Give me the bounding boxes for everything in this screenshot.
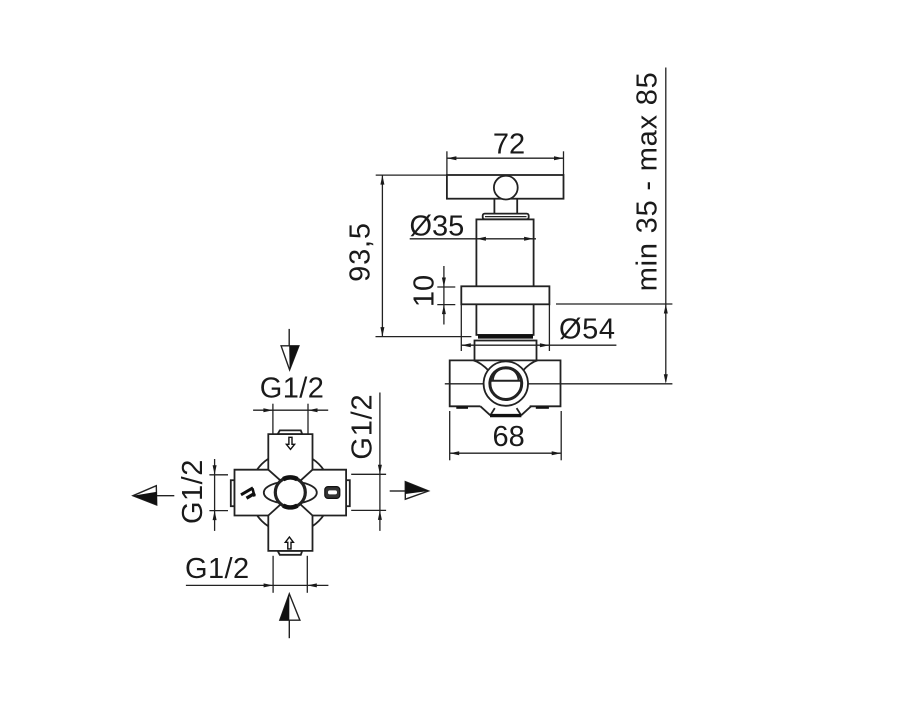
handle bar: [447, 175, 564, 199]
bottom edge shadow ticks: [456, 406, 468, 408]
dimension min35-max85 vertical line: [665, 68, 667, 382]
dimension Ø54 extension lines: [461, 300, 549, 351]
big circle of valve (front): [250, 452, 331, 533]
inlet flow line top: [288, 329, 290, 346]
dimension Ø54 line with arrows: [461, 344, 616, 346]
svg-text:min 35 - max 85: min 35 - max 85: [632, 71, 664, 291]
thread shadow thick line at cartridge bottom: [478, 335, 533, 339]
handle stem: [494, 199, 517, 215]
escutcheon flange Ø54: [461, 286, 549, 304]
dimension 93,5 line with arrows: [381, 175, 383, 337]
top arm glyph (outline arrow down): [286, 437, 294, 449]
dimension G1/2 left line with outside arrows: [214, 459, 216, 531]
outlet flow line bottom: [288, 620, 290, 638]
right end cap: [346, 480, 350, 506]
left flow line: [157, 495, 174, 497]
svg-text:Ø35: Ø35: [410, 211, 465, 243]
cartridge body Ø35: [476, 219, 533, 335]
dimension 72 line with arrows: [447, 157, 564, 159]
cross body outline: [235, 434, 347, 551]
svg-text:G1/2: G1/2: [177, 459, 209, 524]
svg-text:10: 10: [409, 275, 441, 307]
svg-text:68: 68: [492, 421, 524, 453]
handle collar inner line: [485, 216, 527, 218]
left flow arrow (half filled): [133, 486, 157, 505]
svg-text:G1/2: G1/2: [185, 553, 249, 585]
left arm glyph (hot marker): [241, 488, 255, 498]
ball lens ellipse: [264, 481, 317, 503]
valve seat thick ring: [490, 368, 522, 400]
valve housing body fill (68 wide): [450, 360, 561, 406]
dimension min35-max85 upper extension line: [556, 303, 672, 305]
dimension G1/2 right line with outside arrows: [379, 393, 381, 531]
svg-text:G1/2: G1/2: [260, 373, 324, 405]
right arm glyph (cold marker): [325, 487, 340, 499]
wing bottom thick line: [490, 414, 521, 417]
dimension Ø35 line with arrows: [410, 238, 536, 240]
dimension G1/2 bottom line with outside arrows: [186, 584, 329, 586]
bottom nipple: [278, 551, 303, 555]
dimension G1/2 right extension lines: [351, 474, 386, 510]
handle collar: [483, 214, 529, 220]
dimension G1/2 top line with outside arrows: [253, 409, 328, 411]
shoulder arcs: [474, 360, 490, 371]
handle ball: [494, 176, 518, 200]
svg-text:Ø54: Ø54: [559, 313, 616, 345]
plug dome: [493, 368, 519, 381]
dimension 93,5 bottom extension line: [376, 336, 472, 338]
bonnet neck: [475, 341, 537, 361]
svg-text:93,5: 93,5: [345, 222, 377, 282]
svg-text:72: 72: [493, 129, 525, 161]
right flow arrow (half filled): [405, 482, 428, 500]
svg-text:G1/2: G1/2: [347, 394, 379, 460]
plug chord line: [490, 380, 521, 382]
dimension G1/2 top extension lines: [273, 404, 308, 442]
corner diagonals: [268, 470, 312, 516]
dimension 93,5 top extension line: [376, 174, 447, 176]
dimension 68 extension lines: [450, 411, 562, 460]
bottom wings / nut facets: [480, 406, 531, 415]
valve housing body outline: [450, 360, 561, 406]
outlet flow arrow bottom (half filled): [280, 594, 300, 620]
dimension 10 extension ticks: [437, 287, 455, 305]
right flow line: [390, 490, 406, 492]
dimension 72 extension lines: [447, 151, 564, 175]
thick arc accents top/bottom: [283, 477, 297, 479]
dimension 10 line with outside arrows: [443, 266, 445, 325]
top nipple: [278, 430, 303, 434]
dimension G1/2 left extension lines: [209, 475, 228, 511]
stem thick circle: [275, 477, 305, 507]
inlet flow arrow (half filled): [281, 346, 299, 370]
centerline through valve body: [445, 383, 673, 385]
valve seat outer circle: [484, 361, 528, 405]
dimension G1/2 bottom extension lines: [273, 556, 307, 593]
bottom arm glyph (outline arrow up): [285, 537, 293, 549]
dimension 68 line with arrows: [450, 452, 562, 454]
left end cap: [231, 480, 235, 506]
